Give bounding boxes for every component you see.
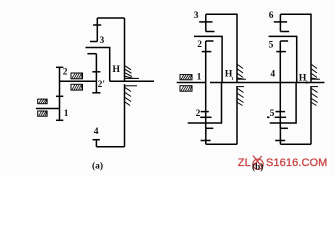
gear 2' top corner line (87, 53, 96, 55)
ring top bracket (97, 17, 124, 19)
svg-text:5: 5 (270, 109, 275, 119)
ring 6 mesh line lower (280, 127, 288, 129)
ring 3 upper vertical (205, 14, 207, 31)
ring 3 tick (199, 21, 212, 23)
gear 3 tick (93, 24, 101, 26)
svg-text:(b): (b) (252, 161, 263, 172)
svg-text:4: 4 (270, 69, 275, 79)
ground hatch above axis (a) (125, 66, 139, 79)
bearing box lower (shaft 1) (38, 111, 47, 116)
bearing box upper (b input) (180, 75, 192, 80)
planet 5 top corner (280, 40, 288, 42)
bearing box lower (shaft 2) (71, 84, 83, 90)
ring top bracket (b left) (206, 14, 237, 82)
sun-planet column (b right) (279, 41, 281, 128)
gear 3 mesh line (90, 41, 97, 43)
gear 4 line (95, 140, 97, 147)
axis of shaft 2-2' (60, 80, 97, 82)
gear 2' line (95, 54, 97, 93)
bearing box upper (shaft 1) (38, 99, 47, 104)
svg-text:6: 6 (269, 11, 274, 21)
ring bottom bracket (96, 146, 124, 148)
mesh tick lower (276, 111, 286, 113)
carrier H1 upper arm (194, 36, 222, 82)
ring top bracket (b right) (280, 14, 311, 82)
gear 1 bottom tick (56, 119, 63, 121)
ring 3 lower tick (201, 140, 211, 142)
svg-text:S1616.COM: S1616.COM (266, 157, 327, 169)
ring lower rim (b right) (310, 86, 312, 144)
gear 2' bottom tick (92, 92, 100, 94)
shaft 1 axis (36, 108, 60, 110)
svg-text:3: 3 (100, 36, 105, 46)
mesh tick upper (276, 51, 286, 53)
ring rim vertical upper (124, 18, 126, 81)
ring 3 mesh line lower (206, 127, 214, 129)
carrier H2 upper arm (269, 36, 297, 82)
ring bottom bracket (b left) (206, 143, 237, 145)
gear 2 top tick (56, 66, 63, 68)
svg-text:5: 5 (269, 41, 274, 51)
ground hatch below axis (a) (125, 86, 137, 106)
ring rim vertical lower (124, 84, 126, 147)
ring 3 mesh line upper (206, 31, 215, 33)
svg-text:1: 1 (197, 73, 202, 83)
bearing box lower (b input) (180, 86, 192, 92)
ground hatch above axis (b left) (238, 65, 247, 80)
ring 6 lower tick (275, 140, 285, 142)
ring 3 lower vertical (205, 128, 207, 144)
svg-text:2': 2' (98, 80, 105, 90)
svg-text:4: 4 (94, 127, 99, 137)
carrier H bracket (86, 48, 110, 82)
ring bottom bracket (b right) (280, 143, 311, 145)
ring 6 tick (274, 21, 287, 23)
ring 6 upper vertical (279, 14, 281, 31)
gear 4 tick (93, 139, 100, 141)
ring 6 mesh line upper (280, 31, 289, 33)
svg-text:ZL: ZL (238, 157, 251, 169)
ground hatch above axis (b right) (312, 65, 321, 80)
svg-text:2: 2 (197, 40, 202, 50)
bearing box upper (shaft 2) (71, 73, 83, 79)
svg-text:H: H (112, 64, 120, 75)
watermark (238, 156, 328, 170)
svg-text:2: 2 (196, 109, 201, 119)
svg-text:(a): (a) (92, 160, 103, 171)
gear 1-2 mesh tick (56, 95, 63, 97)
planet 5 bottom corner (275, 116, 286, 118)
ground hatch below axis (b left) (238, 87, 245, 106)
carrier H1 lower arm (188, 83, 222, 124)
main axis right (a) (110, 80, 154, 82)
svg-text:3: 3 (194, 11, 199, 21)
planet 2 top corner (206, 40, 214, 42)
ground hatch below axis (b right) (312, 87, 319, 106)
main axis of (b) (177, 82, 206, 84)
ring 6 lower vertical (279, 128, 281, 144)
svg-text:2: 2 (63, 68, 68, 78)
sun-planet column (b left) (205, 41, 207, 128)
planet 2 bottom corner (200, 116, 211, 118)
svg-text:1: 1 (64, 109, 69, 119)
gear 2' mesh tick (92, 71, 100, 73)
mesh tick upper (202, 51, 212, 53)
carrier H2 lower arm (270, 83, 296, 124)
ring lower rim (b left) (236, 86, 238, 144)
mesh tick lower (201, 111, 209, 113)
gear 1-2 shaft line (59, 67, 61, 120)
gear 3 line (96, 18, 98, 42)
